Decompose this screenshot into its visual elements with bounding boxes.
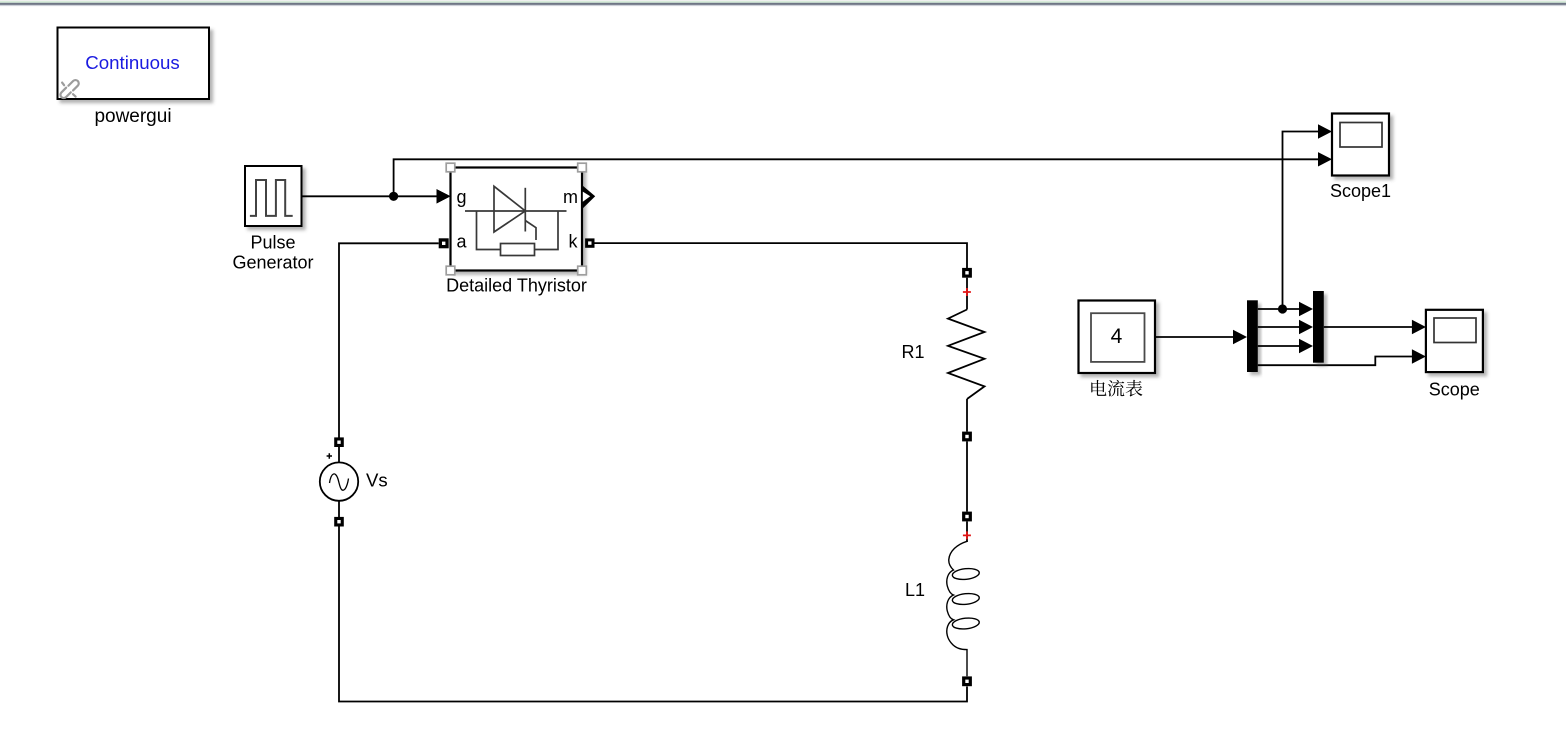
R1 polarity plus (red) bbox=[963, 288, 971, 296]
Scope screen bbox=[1434, 318, 1476, 343]
arrowhead mux in3 bbox=[1299, 339, 1313, 353]
pulse generator block bbox=[245, 166, 302, 226]
R1 bottom port bbox=[962, 432, 972, 442]
port g input arrow bbox=[437, 189, 451, 203]
svg-text:k: k bbox=[569, 232, 579, 252]
arrowhead mux in1 bbox=[1299, 302, 1313, 316]
svg-text:powergui: powergui bbox=[94, 106, 171, 127]
wire: junction up to Scope1 input 1 bbox=[1283, 132, 1320, 310]
Vs source circle bbox=[320, 462, 358, 500]
arrowhead Scope1 input 1 bbox=[1318, 124, 1332, 138]
svg-text:L1: L1 bbox=[905, 580, 925, 600]
arrowhead Scope1 input 2 bbox=[1318, 152, 1332, 166]
Scope block bbox=[1426, 310, 1483, 372]
toolbar edge strip bbox=[0, 0, 1566, 6]
L1 wire stub above bbox=[966, 522, 968, 543]
arrowhead into port g bbox=[437, 189, 451, 203]
L1 bottom port bbox=[962, 676, 972, 686]
wire: constant to demux bbox=[1155, 336, 1234, 338]
selection handles bbox=[446, 163, 455, 172]
Vs bottom port bbox=[334, 517, 344, 527]
wire: mux output to Scope input 1 bbox=[1324, 326, 1413, 328]
thyristor symbol bbox=[465, 186, 567, 255]
wire: Vs to bottom rail to L1 bbox=[339, 527, 967, 702]
L1 polarity plus (red) bbox=[963, 531, 971, 539]
svg-text:Scope: Scope bbox=[1429, 379, 1480, 399]
svg-text:Pulse: Pulse bbox=[250, 233, 295, 253]
svg-text:g: g bbox=[457, 187, 467, 207]
Scope1 screen bbox=[1340, 123, 1382, 148]
wire: R1 to L1 bbox=[966, 442, 968, 512]
node: junction on demux out1 bbox=[1278, 304, 1287, 313]
Scope1 block bbox=[1332, 114, 1389, 176]
wire: demux out3 bbox=[1258, 345, 1300, 347]
arrowhead into demux bbox=[1233, 330, 1247, 344]
L1 top port bbox=[962, 512, 972, 522]
svg-text:4: 4 bbox=[1111, 325, 1123, 348]
node: gate wire junction bbox=[389, 192, 398, 201]
constant block inner rect bbox=[1091, 313, 1145, 362]
wire: demux out2 bbox=[1258, 326, 1300, 328]
svg-text:Detailed Thyristor: Detailed Thyristor bbox=[446, 276, 587, 296]
broken library link icon bbox=[59, 79, 80, 100]
电流表 name label (drawn glyphs) bbox=[1091, 380, 1142, 397]
thyristor block body bbox=[451, 168, 583, 271]
Vs polarity plus bbox=[327, 453, 332, 458]
arrowhead Scope input 2 bbox=[1412, 349, 1426, 363]
wire: pulse generator output to thyristor gate bbox=[302, 195, 438, 197]
arrowhead mux in2 bbox=[1299, 320, 1313, 334]
svg-text:Scope1: Scope1 bbox=[1330, 181, 1391, 201]
pulse generator waveform icon bbox=[250, 180, 293, 216]
constant block 4 (電流表) outer bbox=[1079, 301, 1156, 374]
port a square bbox=[439, 238, 449, 248]
Vs top port bbox=[334, 437, 344, 447]
mux bar bbox=[1313, 291, 1324, 363]
svg-text:Generator: Generator bbox=[232, 253, 313, 273]
wire: port k right and down to R1 bbox=[595, 243, 968, 268]
powergui block bbox=[58, 28, 210, 100]
svg-text:Vs: Vs bbox=[366, 470, 388, 491]
svg-text:R1: R1 bbox=[901, 342, 924, 362]
demux bar bbox=[1247, 300, 1258, 372]
svg-text:a: a bbox=[457, 232, 468, 252]
wire: demux out1 bbox=[1258, 308, 1300, 310]
wire: demux out4 to Scope input 2 bbox=[1258, 357, 1413, 366]
port m output chevron bbox=[583, 186, 595, 209]
Vs sine wave bbox=[330, 474, 349, 490]
wire: port a left and down to Vs bbox=[339, 243, 439, 437]
svg-text:Continuous: Continuous bbox=[85, 52, 180, 73]
Vs wire stub bottom bbox=[338, 501, 340, 517]
svg-text:m: m bbox=[563, 187, 578, 207]
R1 wire stub above bbox=[966, 278, 968, 310]
R1 wire stub below bbox=[966, 399, 968, 432]
Vs wire stub top bbox=[338, 447, 340, 463]
wire: junction up and right to Scope1 input 2 bbox=[394, 159, 1319, 196]
inductor L1 coil bbox=[947, 541, 980, 676]
resistor R1 zigzag bbox=[948, 310, 985, 400]
port k square bbox=[585, 238, 594, 247]
R1 top port bbox=[962, 268, 972, 278]
arrowhead Scope input 1 bbox=[1412, 320, 1426, 334]
